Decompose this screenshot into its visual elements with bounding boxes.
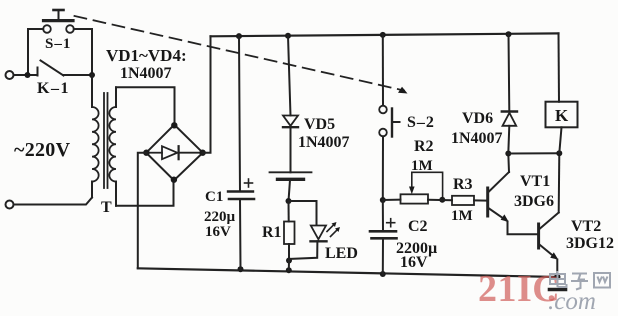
wire — [14, 198, 93, 205]
node R2 wiper — [439, 197, 445, 203]
svg-text:VD5: VD5 — [304, 116, 335, 133]
wire bridge plus up to rail — [203, 36, 211, 152]
wire S-1 left branch — [28, 29, 43, 75]
svg-text:K: K — [555, 106, 569, 125]
svg-text:LED: LED — [325, 245, 358, 262]
resistor R1 — [284, 201, 295, 261]
transistor VT1 — [488, 154, 538, 235]
wire top rail — [211, 33, 559, 36]
svg-text:VT2: VT2 — [571, 218, 601, 235]
wire collector tie — [508, 152, 559, 154]
svg-text:1M: 1M — [411, 158, 433, 174]
node S-2 bottom — [380, 197, 386, 203]
node top rail S-2 — [380, 32, 386, 38]
pushbutton S-1 — [43, 10, 74, 33]
node collector tie right — [556, 150, 562, 156]
battery GB — [270, 172, 312, 201]
svg-text:1N4007: 1N4007 — [451, 130, 503, 147]
svg-text:1M: 1M — [451, 208, 473, 224]
node bridge top — [171, 122, 177, 128]
wire R3 to VT1 base — [474, 199, 486, 201]
node top rail C1 — [236, 33, 242, 39]
diode VD6 — [502, 34, 517, 153]
arrowhead link — [398, 87, 408, 94]
node bridge right — [199, 150, 205, 156]
relay K — [546, 33, 578, 153]
transformer T primary — [92, 75, 99, 198]
svg-text:C2: C2 — [408, 218, 428, 235]
wire LED bottom — [289, 241, 317, 259]
svg-text:R3: R3 — [453, 176, 473, 193]
svg-text:VD1~VD4:: VD1~VD4: — [106, 46, 187, 65]
svg-text:S–1: S–1 — [45, 36, 71, 52]
resistor R3 — [452, 196, 474, 205]
bridge rectifier VD1-VD4 — [146, 125, 203, 181]
node bridge left — [143, 150, 149, 156]
terminal input top — [6, 71, 14, 79]
svg-text:16V: 16V — [205, 224, 231, 240]
wire secondary top to bridge — [116, 87, 175, 123]
wire to R2 — [383, 199, 401, 201]
terminal input bottom — [6, 201, 14, 209]
svg-text:3DG12: 3DG12 — [566, 235, 614, 252]
svg-text:.com: .com — [548, 288, 596, 315]
wire — [288, 261, 290, 271]
pushbutton S-2 — [379, 35, 399, 200]
node bottom rail VT2 — [554, 274, 560, 280]
svg-text:R2: R2 — [414, 138, 434, 155]
wire bridge minus down to rail — [138, 153, 147, 269]
watermark dianziwang glyphs — [550, 271, 610, 290]
ground mark — [550, 288, 566, 292]
svg-text:K–1: K–1 — [37, 80, 70, 97]
node bottom rail C2 — [380, 271, 386, 277]
node bridge bottom — [171, 177, 177, 183]
svg-text:16V: 16V — [400, 254, 428, 271]
node junction K-1 right — [89, 72, 95, 78]
node bottom rail C1 — [238, 266, 244, 272]
LED branch — [289, 201, 317, 225]
switch K-1 — [38, 61, 64, 76]
capacitor C2 — [370, 200, 397, 274]
wire — [63, 74, 92, 76]
svg-text:3DG6: 3DG6 — [514, 193, 554, 210]
node VD6 bottom — [505, 151, 511, 157]
svg-text:VD6: VD6 — [462, 110, 493, 127]
capacitor C1 — [228, 36, 254, 269]
svg-text:T: T — [101, 199, 112, 216]
node battery bottom — [286, 198, 292, 204]
svg-text:~220V: ~220V — [14, 139, 71, 161]
svg-text:S–2: S–2 — [407, 114, 435, 131]
wire S-1 right branch — [74, 29, 92, 75]
svg-text:1N4007: 1N4007 — [120, 65, 172, 82]
node junction K-1 left — [25, 72, 31, 78]
diode VD5 — [283, 36, 298, 173]
wire — [14, 74, 38, 76]
svg-text:VT1: VT1 — [520, 173, 550, 190]
dashed mechanical link — [75, 16, 405, 91]
node R1 bottom — [286, 258, 292, 264]
node top rail VD5 — [285, 33, 291, 39]
transformer T secondary — [109, 87, 116, 206]
transistor VT2 — [539, 153, 560, 277]
svg-text:C1: C1 — [205, 189, 223, 205]
svg-text:R1: R1 — [262, 224, 282, 241]
wire R2 to R3 — [428, 199, 452, 201]
LED — [311, 222, 341, 241]
potentiometer R2 — [401, 172, 443, 203]
node top rail VD6 — [506, 31, 512, 37]
transformer core — [104, 93, 108, 188]
svg-text:220µ: 220µ — [204, 209, 236, 225]
svg-text:1N4007: 1N4007 — [298, 134, 350, 151]
wire bottom rail — [138, 268, 558, 277]
wire secondary bottom to bridge — [116, 183, 174, 206]
node bottom rail R1 — [286, 267, 292, 273]
